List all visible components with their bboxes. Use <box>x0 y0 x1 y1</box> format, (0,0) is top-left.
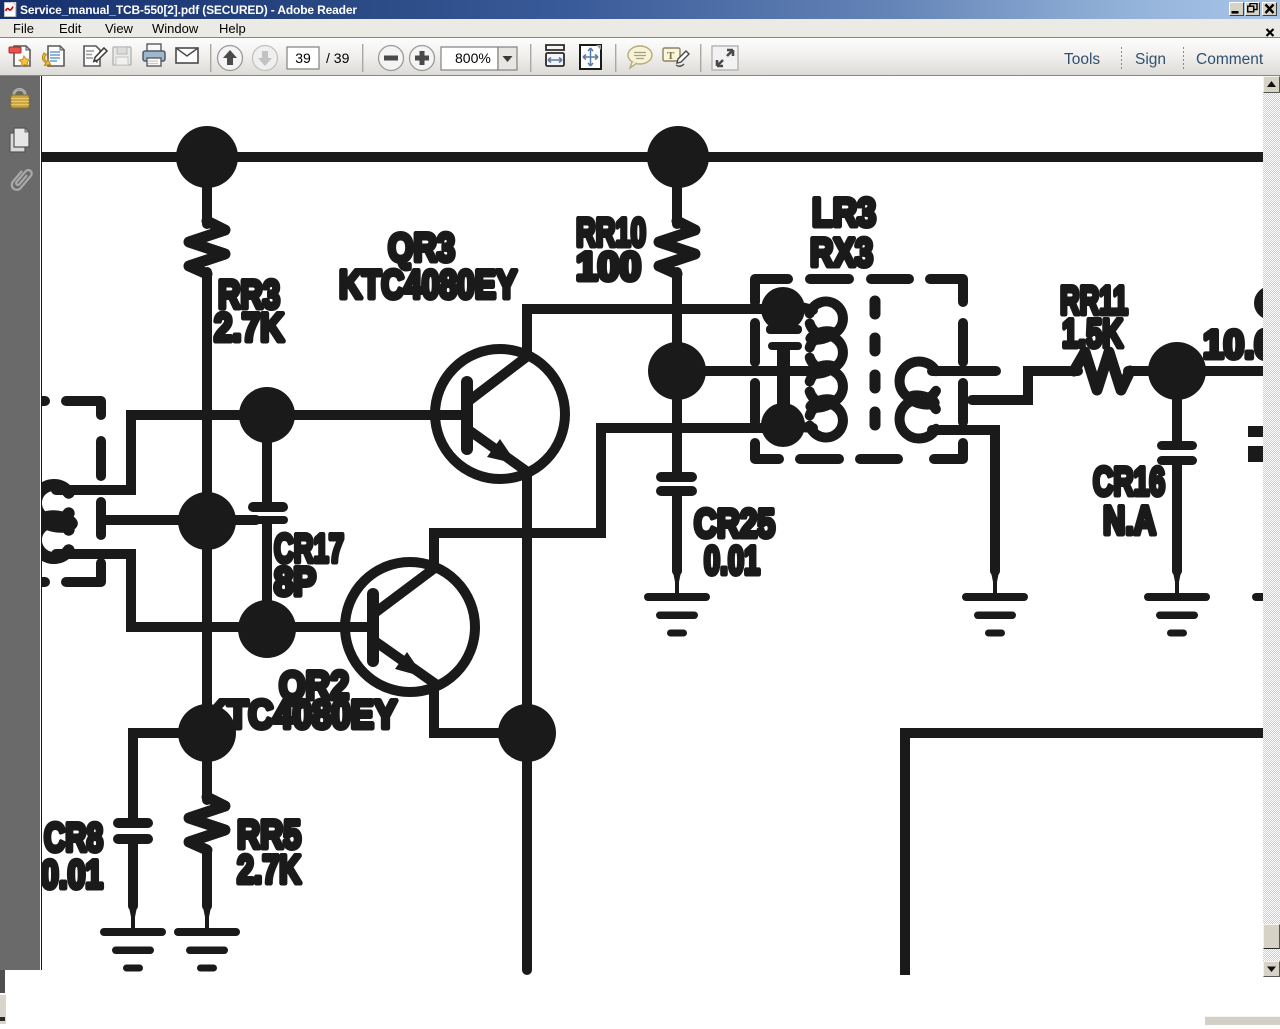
wire LR3 secondary top stub <box>932 366 996 376</box>
resistor RR11 1.5K <box>1074 352 1130 390</box>
wire RR3 lower lead down through node A to RR5 <box>202 272 212 800</box>
wire QR2 emitter to node (527,733) <box>434 685 527 733</box>
wire QR2 base net from left IFT <box>56 554 371 627</box>
sidebar <box>0 76 40 970</box>
sign/pencil icon <box>84 46 107 66</box>
ground below RR5 <box>174 902 240 972</box>
capacitor CR8 0.01 plates <box>113 818 153 844</box>
print icon <box>143 44 165 66</box>
wire QR3 base net from left IFT <box>56 415 463 490</box>
LR3 core dashed line <box>870 301 881 446</box>
vertical scrollbar <box>1263 76 1280 976</box>
node junction dot RR10/CR25/tap <box>648 342 706 400</box>
wire block outline lower right <box>905 733 1265 970</box>
menu bar <box>0 19 1280 37</box>
fit page icon <box>580 45 601 69</box>
node junction dot left rail / CR8 / RR5 <box>178 704 236 762</box>
capacitor CR16 N.A plates <box>1157 441 1197 465</box>
wire CR17 upper lead <box>262 415 272 503</box>
page down button disabled <box>253 46 278 71</box>
svg-text:2.7K: 2.7K <box>237 848 301 892</box>
svg-text:/ 39: / 39 <box>326 50 350 66</box>
text callout icon <box>663 48 689 66</box>
capacitor CR25 0.01 plates <box>656 472 697 496</box>
wire RR10 upper lead <box>672 157 682 224</box>
wire RR11 to node (1177,371) and right edge <box>1128 366 1265 376</box>
LR3 RX3 dashed enclosure <box>755 279 963 459</box>
svg-text:KTC4080EY: KTC4080EY <box>339 263 517 307</box>
svg-text:1.5K: 1.5K <box>1062 312 1123 356</box>
wire CR8 to ground <box>128 844 138 906</box>
wire RR3 upper lead <box>202 157 212 224</box>
node junction dot top rail right <box>647 126 709 188</box>
toolbar <box>0 37 1280 76</box>
fit width icon <box>546 45 564 66</box>
resistor RR5 2.7K <box>189 797 225 850</box>
separator <box>615 44 616 72</box>
node junction dot emitter rail <box>498 704 556 762</box>
separator <box>362 44 363 72</box>
svg-text:100: 100 <box>576 245 641 289</box>
partial capacitor glyph at right edge <box>1248 426 1268 462</box>
zoom in button <box>410 46 435 71</box>
inductor LR3 primary winding <box>801 302 843 438</box>
wire left IFT tap to node (207,522) <box>104 515 256 525</box>
svg-text:KTC4080EY: KTC4080EY <box>202 693 397 737</box>
save-copy icon <box>42 46 64 66</box>
svg-text:RX3: RX3 <box>810 231 873 275</box>
inductor LR3 secondary winding <box>900 362 936 439</box>
wire LR3 pin stub to RR11 jog <box>972 371 1078 400</box>
separator <box>210 44 211 72</box>
separator <box>530 44 531 72</box>
svg-text:Comment: Comment <box>1196 51 1264 68</box>
pages icon <box>10 128 29 152</box>
svg-text:8P: 8P <box>274 560 316 604</box>
wire CR8 branch from node (207,733) <box>133 733 207 819</box>
left IFT dashed enclosure fragment <box>40 401 101 582</box>
ground below CR25 <box>644 567 710 637</box>
ground partial at right edge <box>1252 567 1280 637</box>
zoom out button <box>379 46 404 71</box>
inductor left IFT winding <box>36 485 69 558</box>
wire CR16 to ground <box>1172 464 1182 571</box>
lock icon <box>11 89 29 108</box>
resistor RR3 2.7K <box>189 221 225 274</box>
node LR3 primary top pin <box>761 287 805 331</box>
wire QR3 emitter rail down <box>522 473 532 970</box>
node junction dot top rail left <box>176 126 238 188</box>
svg-text:0.01: 0.01 <box>42 853 103 897</box>
wire LR3 secondary bottom to ground <box>932 430 995 571</box>
wire QR3 collector to LR3 primary top <box>527 309 783 352</box>
partial letter at top right edge <box>1259 291 1280 315</box>
open icon <box>9 46 30 66</box>
separator <box>700 44 701 72</box>
wire QR2 collector to LR3 primary bottom <box>434 428 783 567</box>
resistor RR10 100 <box>659 221 695 274</box>
node junction dot QR3 base / CR17 <box>239 387 295 443</box>
Adobe Reader window title bar <box>0 0 1280 19</box>
wire node (1177,371) to CR16 <box>1172 398 1182 442</box>
svg-text:Sign: Sign <box>1135 51 1166 68</box>
LR3 internal capacitor <box>766 309 802 406</box>
svg-text:2.7K: 2.7K <box>214 306 284 350</box>
svg-text:10.6: 10.6 <box>1203 323 1263 367</box>
ground below LR3 secondary <box>962 567 1028 637</box>
wire RR5 lower lead <box>202 850 212 906</box>
ground below CR16 <box>1144 567 1210 637</box>
paperclip icon <box>10 167 33 192</box>
capacitor CR17 8P plates <box>248 502 288 524</box>
comment bubble icon <box>628 46 652 68</box>
svg-text:800%: 800% <box>455 50 491 66</box>
svg-text:CR16: CR16 <box>1093 460 1165 504</box>
svg-text:0.01: 0.01 <box>704 539 760 583</box>
transistor QR3 KTC4080EY <box>435 349 565 479</box>
transistor QR2 KTC4080EY <box>345 562 475 692</box>
wire CR17 lower lead <box>262 523 272 629</box>
node junction dot RR11 / CR16 <box>1148 342 1206 400</box>
node junction dot left rail / IFT tap <box>178 492 236 550</box>
page number box <box>287 47 319 69</box>
node LR3 primary bottom pin <box>761 403 805 447</box>
zoom level box <box>441 47 498 70</box>
svg-text:N.A: N.A <box>1103 499 1156 543</box>
svg-text:Tools: Tools <box>1064 51 1100 68</box>
email icon <box>176 48 198 63</box>
node junction dot QR2 base / CR17 <box>238 600 296 658</box>
wire CR25 to ground <box>672 495 682 571</box>
svg-text:T: T <box>667 50 675 62</box>
svg-text:LR3: LR3 <box>812 191 876 235</box>
wire RR10 lower lead to CR25 <box>672 272 682 473</box>
page up button <box>218 46 243 71</box>
svg-text:39: 39 <box>295 50 311 66</box>
wire node (677,371) to LR3 primary tap <box>677 366 826 376</box>
wire top rail <box>40 152 1265 162</box>
fullscreen icon <box>712 46 738 70</box>
save icon disabled <box>113 47 131 65</box>
ground below CR8 <box>100 902 166 972</box>
